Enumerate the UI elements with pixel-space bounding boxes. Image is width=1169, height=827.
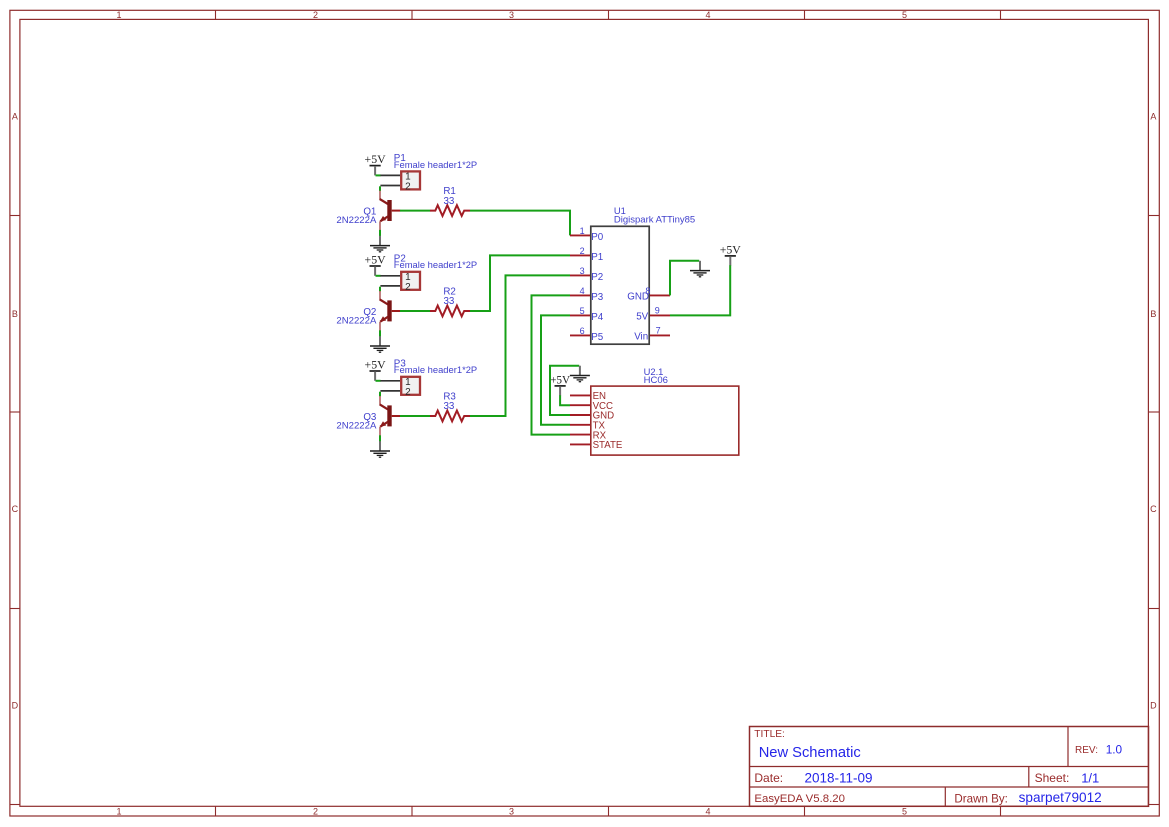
U1 pin 2 (P1)	[570, 246, 603, 263]
transistor Q1 2N2222A	[336, 191, 400, 231]
svg-text:P1: P1	[591, 252, 603, 263]
svg-text:2: 2	[405, 282, 411, 293]
svg-text:2: 2	[313, 807, 318, 817]
U2.1 pin TX	[570, 421, 606, 432]
wire U1 P3 to U2.1 RX	[532, 295, 571, 434]
svg-text:EasyEDA V5.8.20: EasyEDA V5.8.20	[754, 793, 845, 805]
svg-text:Digispark ATTiny85: Digispark ATTiny85	[614, 214, 695, 225]
U1 pin 6 (P5)	[570, 326, 604, 343]
module U2.1 HC06	[591, 366, 739, 455]
svg-text:+5V: +5V	[365, 358, 387, 372]
svg-text:C: C	[1150, 504, 1157, 514]
svg-text:STATE: STATE	[593, 440, 623, 451]
svg-text:5V: 5V	[636, 311, 648, 322]
svg-text:3: 3	[509, 10, 514, 20]
title block	[750, 727, 1149, 807]
svg-text:P5: P5	[591, 332, 604, 343]
resistor R1 33	[430, 186, 470, 216]
svg-text:6: 6	[580, 326, 585, 336]
wire Q1 base to R1	[400, 210, 430, 212]
resistor R2 33	[430, 286, 470, 316]
svg-text:2: 2	[405, 387, 411, 398]
U1 pin 7 (Vin)	[634, 326, 670, 343]
wire Q2 base to R2	[400, 310, 430, 312]
ground (U2.1 GND)	[579, 366, 581, 375]
svg-text:+5V: +5V	[365, 152, 387, 166]
svg-text:B: B	[12, 309, 18, 319]
svg-text:P0: P0	[591, 232, 604, 243]
U1 pin 1 (P0)	[570, 226, 604, 243]
wire R1 to U1 P0 (net 1)	[470, 211, 570, 236]
svg-text:+5V: +5V	[720, 242, 742, 256]
svg-text:A: A	[12, 112, 18, 122]
svg-text:Drawn By:: Drawn By:	[954, 792, 1007, 805]
ground	[379, 336, 381, 345]
svg-text:TITLE:: TITLE:	[754, 729, 785, 740]
svg-text:P4: P4	[591, 312, 604, 323]
svg-text:B: B	[1150, 309, 1156, 319]
svg-text:Female header1*2P: Female header1*2P	[394, 259, 477, 270]
wire +5V to P1 pin 1	[376, 174, 381, 176]
svg-text:2: 2	[580, 246, 585, 256]
U2.1 pin EN	[570, 391, 606, 402]
svg-text:sparpet79012: sparpet79012	[1019, 790, 1102, 805]
svg-text:2018-11-09: 2018-11-09	[805, 770, 873, 785]
svg-text:D: D	[1150, 701, 1157, 711]
svg-text:P2: P2	[591, 272, 603, 283]
wire P3 pin 2 to Q3 collector	[379, 392, 381, 397]
wire +5V to U2.1 VCC	[560, 395, 570, 405]
svg-text:A: A	[1150, 112, 1156, 122]
transistor Q2 2N2222A	[336, 291, 400, 331]
svg-text:D: D	[12, 701, 19, 711]
svg-text:Female header1*2P: Female header1*2P	[394, 364, 477, 375]
wire P2 pin 2 to Q2 collector	[379, 287, 381, 292]
wire Q2 emitter to ground	[379, 330, 381, 336]
svg-text:REV:: REV:	[1075, 745, 1098, 756]
svg-text:+5V: +5V	[550, 374, 570, 386]
wire U2.1 GND to ground	[550, 366, 579, 415]
svg-text:4: 4	[705, 10, 710, 20]
svg-text:5: 5	[902, 807, 907, 817]
connector P3 Female header1*2P	[380, 358, 477, 398]
wire Q3 base to R3	[400, 415, 430, 417]
svg-text:4: 4	[580, 286, 585, 296]
wire +5V to P2 pin 1	[376, 275, 381, 277]
svg-text:2N2222A: 2N2222A	[336, 215, 377, 226]
svg-text:GND: GND	[627, 291, 649, 302]
svg-text:Sheet:: Sheet:	[1035, 771, 1070, 785]
ground	[379, 236, 381, 245]
svg-text:1: 1	[116, 807, 121, 817]
svg-text:Date:: Date:	[754, 771, 783, 785]
svg-text:4: 4	[705, 807, 710, 817]
svg-text:33: 33	[443, 296, 454, 307]
connector P1 Female header1*2P	[380, 153, 477, 193]
svg-text:New Schematic: New Schematic	[759, 745, 861, 761]
wire Q1 emitter to ground	[379, 230, 381, 236]
wire R2 to U1 P1 (net 2)	[470, 255, 570, 311]
svg-text:HC06: HC06	[644, 375, 668, 386]
U2.1 pin VCC	[570, 401, 613, 412]
U1 pin 5 (P4)	[570, 306, 604, 323]
wire +5V to U1 5V pin	[670, 265, 730, 315]
svg-text:5: 5	[580, 306, 585, 316]
svg-text:Female header1*2P: Female header1*2P	[394, 159, 477, 170]
svg-text:1.0: 1.0	[1106, 743, 1123, 757]
svg-text:2: 2	[405, 182, 411, 193]
U2.1 pin GND	[570, 411, 614, 422]
wire U1 GND pin to ground	[670, 261, 699, 296]
svg-text:+5V: +5V	[365, 253, 387, 267]
svg-text:33: 33	[443, 401, 454, 412]
wire U1 P4 to U2.1 TX	[541, 315, 570, 424]
U1 pin 8 (GND)	[627, 286, 670, 302]
U1 pin 4 (P3)	[570, 286, 604, 303]
wire Q3 emitter to ground	[379, 435, 381, 441]
svg-text:Vin: Vin	[634, 331, 648, 342]
U2.1 pin RX	[570, 430, 607, 441]
svg-text:3: 3	[509, 807, 514, 817]
wire P1 pin 2 to Q1 collector	[379, 186, 381, 191]
svg-text:1: 1	[580, 226, 585, 236]
svg-text:9: 9	[655, 306, 660, 316]
svg-text:33: 33	[443, 196, 454, 207]
svg-text:1/1: 1/1	[1081, 770, 1099, 785]
svg-text:2N2222A: 2N2222A	[336, 420, 377, 431]
wire R3 to U1 P2 (net 3)	[470, 275, 570, 416]
svg-text:2N2222A: 2N2222A	[336, 315, 377, 326]
U1 pin 9 (5V)	[636, 306, 670, 323]
U1 pin 3 (P2)	[570, 266, 603, 283]
ground	[379, 441, 381, 450]
ground (U1 GND)	[699, 261, 701, 270]
svg-text:P3: P3	[591, 292, 604, 303]
IC U1 Digispark ATTiny85	[591, 205, 695, 344]
U2.1 pin STATE	[570, 440, 623, 451]
svg-text:C: C	[12, 504, 19, 514]
svg-text:5: 5	[902, 10, 907, 20]
svg-text:2: 2	[313, 10, 318, 20]
transistor Q3 2N2222A	[336, 396, 400, 436]
svg-text:3: 3	[580, 266, 585, 276]
resistor R3 33	[430, 391, 470, 421]
svg-text:1: 1	[116, 10, 121, 20]
connector P2 Female header1*2P	[380, 253, 477, 293]
wire +5V to P3 pin 1	[376, 380, 381, 382]
svg-text:7: 7	[656, 326, 661, 336]
